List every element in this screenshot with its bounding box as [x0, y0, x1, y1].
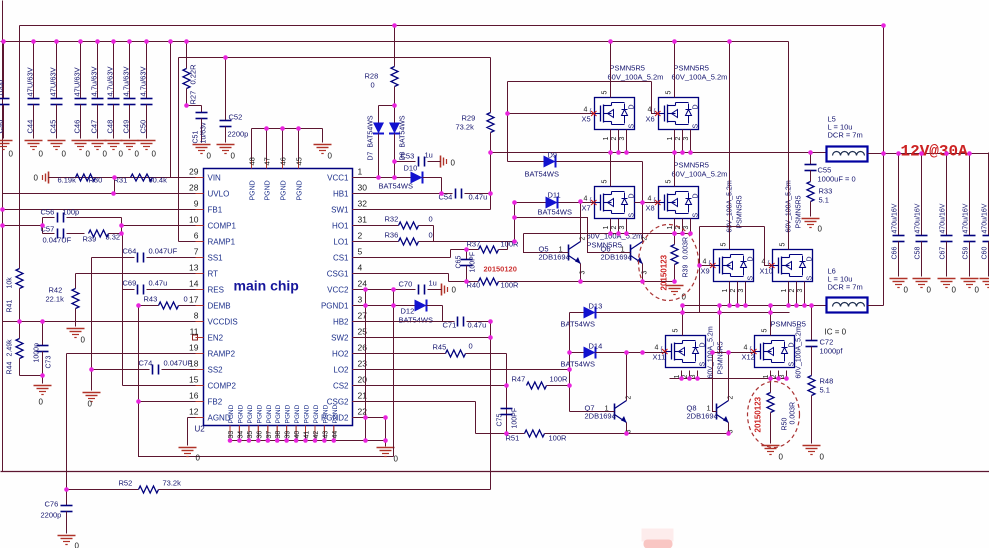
svg-text:R41: R41	[7, 300, 14, 313]
wire C75 riser	[506, 354, 508, 434]
junction at 365,305	[363, 303, 368, 308]
resistor R42 22.1k (vertical)	[46, 274, 80, 327]
svg-text:DCR = 7m: DCR = 7m	[828, 283, 863, 292]
junction at 248.4,440	[247, 438, 252, 443]
svg-text:17: 17	[189, 295, 199, 305]
svg-text:VCC2: VCC2	[327, 286, 349, 295]
svg-text:0: 0	[469, 342, 473, 351]
junction at 323.9,440	[322, 438, 327, 443]
pin 46 PGND top	[279, 129, 288, 201]
svg-text:BAT54WS: BAT54WS	[379, 182, 413, 191]
svg-text:SW1: SW1	[331, 206, 349, 215]
svg-text:46: 46	[279, 157, 288, 165]
svg-text:R50: R50	[782, 418, 789, 431]
label PSMN5R5 X8	[672, 161, 728, 179]
pin 45 PGND top	[295, 129, 304, 201]
junction at 393,305	[391, 303, 396, 308]
capacitor C60 470u/16V	[982, 153, 989, 277]
junction at 626,433	[624, 431, 629, 436]
wire R27 to C51	[187, 105, 202, 107]
svg-text:470u/16V: 470u/16V	[892, 203, 899, 233]
svg-text:470u/16V: 470u/16V	[982, 203, 989, 233]
svg-text:PSMN5R5: PSMN5R5	[796, 195, 803, 228]
resistor R31 60.4k	[114, 174, 168, 185]
svg-text:1: 1	[603, 137, 610, 141]
wire low source 610	[610, 219, 612, 234]
wire CS1 row	[354, 257, 451, 259]
svg-text:16: 16	[189, 391, 199, 401]
capacitor C49 4.7u/63V	[122, 42, 136, 139]
svg-text:X6: X6	[646, 115, 655, 124]
svg-text:D7 BAT54WS: D7 BAT54WS	[368, 115, 375, 160]
ground under C52	[217, 145, 236, 161]
junction UVLO	[111, 191, 116, 196]
pin 38 PGND bottom	[275, 404, 282, 440]
svg-text:X12: X12	[742, 353, 755, 362]
svg-text:CS1: CS1	[333, 254, 349, 263]
resistor R50 0.003R (sense)	[767, 379, 797, 444]
wire RT row	[76, 273, 204, 275]
capacitor C75 100PF	[497, 408, 519, 429]
wire X10 source 796	[796, 282, 798, 306]
junction at 674,281	[672, 279, 677, 284]
ground under C67	[938, 279, 957, 295]
wire Q8 emitter	[728, 423, 730, 434]
resistor R45 0	[354, 342, 507, 358]
junction at 674,233	[672, 231, 677, 236]
junction FB1 left	[0, 207, 5, 212]
red date stamp 20150120	[484, 265, 517, 274]
schematic left border	[2, 1, 4, 472]
wire VIN row y=177	[49, 177, 204, 179]
pin 35 PGND bottom	[247, 404, 254, 440]
junction at 580,201	[578, 199, 583, 204]
wire X11 source 681	[681, 371, 683, 379]
wire top PGND bus	[252, 128, 323, 130]
svg-text:2: 2	[358, 231, 363, 241]
pin 24 VCC2	[327, 279, 367, 295]
svg-text:3: 3	[797, 289, 804, 293]
svg-text:CSG1: CSG1	[327, 270, 349, 279]
svg-text:2DB1694: 2DB1694	[585, 412, 616, 421]
junction at 282,128	[280, 126, 285, 131]
junction at 690,152	[688, 150, 693, 155]
svg-text:PGND: PGND	[294, 404, 301, 423]
wire Q6 emitter drop	[642, 264, 644, 282]
wire CSG1 drop	[448, 274, 450, 282]
junction at 719,312	[717, 310, 722, 315]
wire HB1 row	[354, 193, 453, 195]
ground under C60	[980, 279, 989, 295]
junction at 745,305	[743, 303, 748, 308]
wire X6 source 690	[690, 130, 692, 153]
wire X5 drain	[610, 42, 612, 98]
svg-text:0.003R: 0.003R	[683, 237, 690, 260]
wire HB2 row	[354, 321, 455, 323]
resistor R32 0	[354, 215, 434, 230]
svg-text:0: 0	[452, 286, 457, 295]
svg-text:3: 3	[738, 289, 745, 293]
wire SW1 bus y=152	[491, 152, 827, 154]
ground under C47	[89, 141, 108, 159]
svg-text:47U/63V: 47U/63V	[26, 67, 35, 96]
svg-text:28: 28	[189, 183, 199, 193]
wire X10 source 804	[804, 282, 806, 306]
junction at 385,440	[383, 438, 388, 443]
capacitor C66 470u/16V	[892, 153, 905, 277]
junction at 898,153	[896, 151, 901, 156]
junction R29 bottom on SW bus	[488, 150, 493, 155]
junction at 295.6,440	[294, 438, 299, 443]
svg-text:PSMN5R5: PSMN5R5	[674, 161, 709, 170]
junction at 626,352	[624, 350, 629, 355]
junction at 441,193	[439, 191, 444, 196]
svg-text:0: 0	[429, 215, 433, 224]
ground under R50	[762, 446, 784, 462]
junction at 610,41	[608, 39, 613, 44]
wire gate feed y=81	[508, 81, 652, 83]
svg-text:1: 1	[603, 226, 610, 230]
wire X9 gate	[700, 265, 714, 267]
svg-text:D: D	[693, 104, 700, 109]
svg-text:D9: D9	[548, 151, 558, 160]
junction at 394,161	[392, 159, 397, 164]
svg-text:37: 37	[266, 431, 273, 439]
svg-text:D: D	[807, 256, 814, 261]
wire low source 618	[618, 219, 620, 234]
capacitor C47 4.7u/63V	[90, 42, 104, 139]
wire X7 gate row	[515, 202, 595, 204]
svg-text:D: D	[629, 104, 636, 109]
junction at 138,401	[136, 399, 141, 404]
svg-text:0: 0	[231, 152, 236, 161]
wire COMP1 left	[3, 225, 43, 227]
wire X8 gate stub	[635, 202, 659, 204]
wire to ground	[385, 441, 387, 447]
svg-text:PSMN5R5: PSMN5R5	[718, 341, 725, 374]
wire Q6 base path	[515, 218, 631, 253]
svg-text:4: 4	[648, 107, 652, 114]
wire X9 source 737	[737, 282, 739, 306]
svg-text:C72: C72	[820, 338, 834, 347]
svg-text:S: S	[700, 362, 707, 367]
junction at 569,385	[567, 383, 572, 388]
svg-text:2200p: 2200p	[41, 511, 62, 520]
svg-text:BAT54WS: BAT54WS	[561, 360, 595, 369]
svg-text:42: 42	[313, 431, 320, 439]
wire X6 source 682	[682, 130, 684, 153]
capacitor C55 1000uF	[805, 153, 856, 184]
mosfet X6 PSMN5R5	[646, 91, 700, 141]
ground under C46	[72, 141, 91, 159]
junction at 506,385	[504, 383, 509, 388]
svg-text:0: 0	[952, 286, 957, 295]
wire Q5 collector riser	[580, 202, 582, 242]
svg-text:0: 0	[103, 150, 108, 159]
junction at 97,41	[95, 39, 100, 44]
svg-text:36: 36	[256, 431, 263, 439]
svg-text:C48: C48	[106, 120, 115, 134]
svg-text:1u: 1u	[429, 279, 437, 288]
svg-text:C52: C52	[229, 113, 243, 122]
svg-text:0: 0	[135, 150, 140, 159]
svg-text:C65: C65	[456, 256, 463, 269]
wire x490 riser to R52	[490, 322, 492, 490]
svg-text:5.1: 5.1	[819, 196, 829, 205]
svg-text:S: S	[807, 276, 814, 281]
junction at 804,305	[802, 303, 807, 308]
svg-text:X8: X8	[646, 204, 655, 213]
resistor R43 0	[139, 295, 204, 310]
junction at 298,128	[296, 126, 301, 131]
svg-text:X7: X7	[582, 204, 591, 213]
svg-text:C59: C59	[963, 247, 970, 260]
wire X8 gate riser x=642	[642, 162, 644, 242]
ground under C45	[48, 141, 67, 159]
wire CS2 row	[354, 385, 507, 387]
svg-text:0: 0	[394, 455, 399, 464]
junction R28 bottom	[392, 103, 397, 108]
wire X10 drain riser	[788, 42, 790, 250]
junction at 276.7,440	[275, 438, 280, 443]
junction at 618,152	[616, 150, 621, 155]
svg-text:R37: R37	[467, 240, 481, 249]
capacitor C96 100p	[0, 42, 10, 139]
resistor R51 100R	[476, 430, 729, 443]
wire 12V rail	[868, 153, 989, 155]
svg-text:1000uF = 0: 1000uF = 0	[818, 175, 856, 184]
wire VIN top bus y=25	[20, 25, 884, 27]
junction at 737,305	[735, 303, 740, 308]
svg-text:3: 3	[683, 137, 690, 141]
svg-text:0: 0	[62, 150, 67, 159]
wire bus y=57	[179, 57, 491, 59]
wire C64 to SS2 riser x=91	[91, 258, 93, 370]
junction at 146,41	[144, 39, 149, 44]
wire gate bus y=226	[700, 226, 765, 228]
junction at 729,305	[727, 303, 732, 308]
svg-text:30: 30	[358, 183, 368, 193]
svg-text:C66: C66	[892, 247, 899, 260]
wire X11/X12 drain row y=312	[570, 312, 790, 314]
junction at 466,249	[464, 247, 469, 252]
svg-text:X10: X10	[760, 267, 773, 276]
wire X12 source 778	[778, 371, 780, 379]
svg-text:R42: R42	[49, 286, 63, 295]
review ellipse 2 (dashed)	[748, 382, 800, 448]
junction at 113,41	[111, 39, 116, 44]
junction at 729,41	[727, 39, 732, 44]
wire D13/D14 left riser	[569, 313, 571, 412]
svg-text:C45: C45	[49, 120, 58, 134]
svg-text:60V_100A_5.2m: 60V_100A_5.2m	[608, 73, 664, 82]
label X7 values	[587, 232, 643, 250]
svg-text:0.47u: 0.47u	[149, 279, 168, 288]
svg-text:4: 4	[703, 259, 707, 266]
svg-text:13: 13	[189, 263, 199, 273]
pin 4 CSG1	[327, 263, 363, 279]
junction C54 right	[488, 191, 493, 196]
diode D8 BAT54WS	[389, 106, 407, 178]
junction at 66,489	[64, 487, 69, 492]
svg-text:4: 4	[584, 196, 588, 203]
wire source bus y=233	[524, 233, 691, 235]
wire phase2 sense bus y=378	[670, 378, 787, 380]
svg-text:R47: R47	[512, 375, 526, 384]
capacitor C50 4.7u/63V	[139, 42, 153, 139]
capacitor C52 2200p	[220, 58, 249, 143]
pin 12 AGND	[189, 407, 231, 423]
junction at 186,41	[184, 39, 189, 44]
resistor R44 2.49k (vertical)	[7, 322, 24, 376]
junction at 42,321	[40, 319, 45, 324]
wire CSG2 drop	[475, 402, 477, 434]
label PSMN5R5 X12	[771, 320, 806, 329]
svg-text:PGND: PGND	[275, 404, 282, 423]
svg-text:C44: C44	[26, 120, 35, 134]
junction X8 gate	[640, 200, 645, 205]
svg-text:D13: D13	[589, 302, 603, 311]
junction at 569,352	[567, 350, 572, 355]
junction at 42,225	[40, 223, 45, 228]
pin 17 DEMB	[189, 295, 231, 311]
wire D10 to HB1	[441, 178, 443, 194]
junction at 946,153	[944, 151, 949, 156]
resistor R40 100R	[449, 278, 675, 290]
wire Q7 collector	[626, 353, 628, 401]
svg-text:5: 5	[358, 247, 363, 257]
svg-text:100R: 100R	[550, 375, 569, 384]
svg-text:2: 2	[642, 237, 649, 241]
pin 16 FB2	[189, 391, 223, 407]
label X11 values vertical	[708, 326, 725, 378]
wire VIN drop to R41	[19, 26, 21, 269]
junction at 514,217	[512, 215, 517, 220]
ground under C59	[961, 279, 980, 295]
svg-text:32: 32	[358, 199, 368, 209]
svg-text:41: 41	[304, 431, 311, 439]
svg-text:5: 5	[602, 91, 609, 95]
svg-text:38: 38	[275, 431, 282, 439]
svg-text:100PF: 100PF	[470, 252, 477, 273]
junction at 514,241	[512, 239, 517, 244]
junction R27 bottom	[184, 103, 189, 108]
svg-text:VIN: VIN	[208, 174, 222, 183]
svg-text:2DB1694: 2DB1694	[601, 253, 632, 262]
junction at 394,177	[392, 175, 397, 180]
capacitor C48 4.7u/63V	[106, 42, 120, 139]
svg-text:D10: D10	[404, 164, 418, 173]
svg-text:RAMP2: RAMP2	[208, 350, 236, 359]
svg-text:100PF: 100PF	[512, 408, 519, 429]
wire PGND2 drop	[385, 418, 387, 441]
pin 19 RAMP2	[189, 343, 236, 359]
svg-text:5: 5	[666, 91, 673, 95]
svg-text:4: 4	[655, 345, 659, 352]
svg-text:0: 0	[86, 150, 91, 159]
junction at 129,41	[127, 39, 132, 44]
svg-text:PSMN5R5: PSMN5R5	[674, 64, 709, 73]
svg-text:R52: R52	[119, 479, 133, 488]
svg-text:R33: R33	[819, 187, 833, 196]
junction at 378,177	[376, 175, 381, 180]
wire X6 drain	[674, 42, 676, 98]
svg-text:60V_100A_5.2m: 60V_100A_5.2m	[672, 170, 728, 179]
pin 23 LO2	[333, 359, 367, 375]
junction gate tap	[505, 111, 510, 116]
capacitor C74 0.047UF	[92, 359, 204, 375]
svg-text:PGND: PGND	[256, 404, 263, 423]
diode D10 BAT54WS	[379, 164, 442, 191]
junction at 788,305	[786, 303, 791, 308]
svg-text:C73: C73	[46, 356, 53, 369]
junction at 305.0,440	[303, 438, 308, 443]
wire low source 690	[690, 219, 692, 234]
wire X12 source 786	[786, 371, 788, 379]
svg-text:0: 0	[820, 453, 825, 462]
svg-text:0.47u: 0.47u	[469, 193, 488, 202]
schematic bottom border	[1, 471, 989, 473]
svg-text:HB2: HB2	[333, 318, 349, 327]
wire X10 source 788	[788, 282, 790, 306]
svg-text:7: 7	[194, 247, 199, 257]
junction at 121,233	[119, 231, 124, 236]
wire D12 to HB2	[442, 306, 444, 322]
svg-text:C56: C56	[41, 208, 55, 217]
pin 21 CSG2	[327, 391, 368, 407]
svg-text:0.047UF: 0.047UF	[149, 247, 178, 256]
wire X12 drain riser	[770, 306, 772, 336]
svg-text:0: 0	[818, 225, 823, 234]
svg-text:R44: R44	[7, 362, 14, 375]
svg-text:5.1: 5.1	[820, 386, 830, 395]
svg-text:1: 1	[667, 226, 674, 230]
ground top PGND	[314, 145, 333, 161]
label PSMN5R5 X5	[608, 64, 664, 82]
svg-text:S: S	[693, 213, 700, 218]
review ellipse 1 (dashed)	[639, 225, 699, 301]
svg-text:D14: D14	[589, 342, 603, 351]
label IC = 0	[825, 328, 847, 337]
wire X5 source 618	[618, 130, 620, 153]
wire right bus x=883	[883, 26, 885, 306]
capacitor C53 1u	[395, 151, 438, 167]
wire X8 drain	[674, 153, 676, 187]
pin 8 VCCDIS	[194, 311, 238, 327]
svg-text:0: 0	[196, 454, 201, 463]
wire R43/FB2 riser x=138 and ground rail y=456	[139, 306, 394, 457]
diode D11 BAT54WS	[538, 191, 572, 217]
svg-text:34: 34	[237, 431, 244, 439]
svg-text:PGND: PGND	[285, 404, 292, 423]
junction at 770,378	[768, 376, 773, 381]
svg-text:2: 2	[611, 137, 618, 141]
svg-text:470u/16V: 470u/16V	[915, 203, 922, 233]
wire VCC2 row	[354, 289, 416, 291]
wire PGND2 row	[354, 417, 386, 419]
pin 20 CS2	[333, 375, 367, 391]
svg-text:4.7u/63V: 4.7u/63V	[90, 66, 99, 96]
wire to x514	[434, 241, 515, 243]
svg-text:R36: R36	[385, 231, 399, 240]
svg-text:2200p: 2200p	[228, 130, 249, 139]
pin 7 SS1	[194, 247, 223, 263]
junction at 610,152	[608, 150, 613, 155]
svg-text:6: 6	[194, 231, 199, 241]
svg-text:73.2k: 73.2k	[456, 123, 475, 132]
mosfet X10 PSMN5R5	[760, 243, 814, 293]
svg-text:39: 39	[285, 431, 292, 439]
